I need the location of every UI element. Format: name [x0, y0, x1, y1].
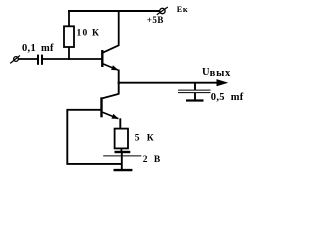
wire Q2 emitter to R2 — [119, 119, 122, 129]
wire R1 top stub — [68, 10, 70, 26]
transistor Q2 collector — [103, 94, 119, 98]
top rail wire — [68, 10, 160, 12]
transistor Q1 emitter with arrow — [103, 64, 118, 70]
input terminal X1 — [10, 56, 20, 64]
output arrowhead — [217, 79, 229, 86]
ground bar at C2 — [186, 99, 204, 101]
svg-text:Ек: Ек — [177, 5, 188, 14]
transistor Q1 base bar — [101, 50, 103, 67]
wire R2 to battery — [120, 148, 122, 152]
feedback wire from Q2 base to ground node — [67, 109, 122, 164]
transistor Q2 base bar — [100, 97, 102, 117]
svg-text:5 К: 5 К — [135, 133, 156, 143]
transistor Q2 base wire — [67, 109, 102, 111]
wire Q1 emitter down to output node — [118, 70, 120, 84]
svg-text:0,1 mf: 0,1 mf — [22, 43, 54, 54]
wire capacitor to Q1 base — [43, 58, 102, 60]
capacitor C2 stub from output wire — [194, 83, 196, 90]
battery short plate — [115, 151, 131, 153]
svg-text:2 В: 2 В — [143, 155, 162, 165]
wire input-to-capacitor — [18, 58, 37, 60]
capacitor C2 plates — [178, 89, 211, 91]
wire R1 bottom stub — [68, 47, 70, 60]
svg-text:10 К: 10 К — [77, 28, 101, 38]
svg-text:+5В: +5В — [147, 15, 164, 25]
resistor R2 5K — [115, 129, 128, 149]
resistor R1 10K — [64, 26, 74, 47]
capacitor C1 — [38, 55, 42, 65]
wire battery down to ground — [121, 152, 123, 170]
svg-text:Uвых: Uвых — [202, 67, 231, 79]
capacitor C2 lower stub — [194, 93, 196, 101]
terminal Ek — [157, 7, 168, 15]
transistor Q2 emitter with arrow — [103, 112, 119, 118]
transistor Q1 collector — [103, 11, 118, 53]
wire output node down to Q2 collector — [118, 82, 120, 95]
svg-text:0,5 mf: 0,5 mf — [211, 92, 244, 103]
ground bar — [114, 169, 133, 171]
output wire with arrow — [118, 82, 221, 84]
battery long plate — [103, 155, 141, 157]
